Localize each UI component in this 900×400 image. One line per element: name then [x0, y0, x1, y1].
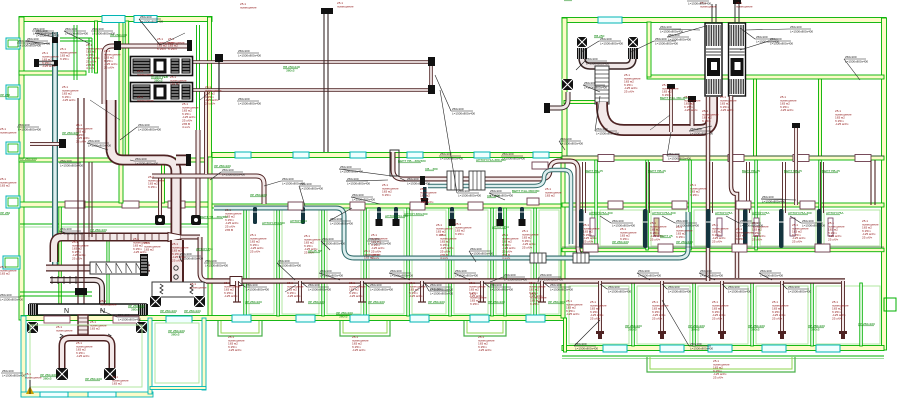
room box x781 [790, 218, 795, 236]
svg-text:АНТОН Р5А-300: АНТОН Р5А-300 [652, 211, 676, 215]
wall box 4 [468, 202, 483, 210]
damper y178 [420, 176, 425, 185]
U-duct top right [582, 50, 633, 66]
svg-text:ВЕНТ П1А-380/380: ВЕНТ П1А-380/380 [512, 189, 540, 193]
fan tower A [705, 23, 722, 96]
wall box 1 [288, 202, 303, 210]
svg-text:L=1500х800х400: L=1500х800х400 [676, 223, 699, 227]
svg-text:L=1500х800х400: L=1500х800х400 [452, 111, 475, 115]
svg-text:ВЕНТ ПВ-25: ВЕНТ ПВ-25 [784, 169, 802, 173]
middle room wall x535 [534, 208, 537, 316]
junction box y199 [527, 198, 539, 205]
fan assembly mid [152, 282, 204, 297]
room drop x819 [817, 209, 822, 248]
svg-text:АН-25 ЛР: АН-25 ЛР [308, 249, 322, 253]
window x166 y316 [166, 316, 192, 323]
riser mid top [324, 14, 328, 152]
svg-text:L=1500х800х400: L=1500х800х400 [586, 61, 609, 65]
svg-text:L=1500х800х400: L=1500х800х400 [728, 289, 751, 293]
svg-text:АНТОН Р5А: АНТОН Р5А [715, 211, 733, 215]
svg-text:L=1500х800х400: L=1500х800х400 [205, 263, 228, 267]
drop short tee x237 [233, 301, 241, 303]
T xbox R [136, 322, 147, 333]
drop short x542 [540, 281, 544, 302]
duct exit cap [544, 103, 550, 113]
duct L5 thin [181, 235, 200, 240]
ladder stem [595, 66, 609, 104]
right wall opening 2 [663, 155, 679, 162]
svg-text:L=1500х800х400: L=1500х800х400 [430, 287, 453, 291]
drop short x422 [420, 281, 424, 302]
spring 1 [160, 284, 163, 294]
duct L1 end cap [187, 40, 192, 51]
xbox U right [628, 37, 638, 47]
svg-text:L=1500х800х400: L=1500х800х400 [430, 291, 453, 295]
svg-text:L=1500х800х400: L=1500х800х400 [490, 287, 513, 291]
svg-text:L=1500х800х400: L=1500х800х400 [347, 181, 370, 185]
bottom-left window 1 [40, 392, 68, 397]
svg-text:ЛР 250х100: ЛР 250х100 [676, 240, 693, 244]
svg-text:ВЕНТ ПВ—380/380: ВЕНТ ПВ—380/380 [398, 159, 426, 163]
wall box 7 [732, 244, 747, 252]
cap x692 [688, 96, 696, 102]
svg-text:380х5: 380х5 [171, 333, 180, 337]
right wall notch [884, 298, 896, 311]
room feed x581 [583, 162, 586, 213]
svg-text:L=1500х800х400: L=1500х800х400 [788, 289, 811, 293]
green line y38 [60, 37, 92, 39]
bottom-left room2 bottom wall [150, 387, 206, 390]
fan xbox 2 [194, 296, 205, 307]
svg-text:АНТОН Р5А-300: АНТОН Р5А-300 [589, 211, 613, 215]
svg-text:L=1500х800х400: L=1500х800х400 [550, 287, 573, 291]
middle room wall x245 [244, 208, 247, 316]
svg-text:АНТОН Р5А: АНТОН Р5А [826, 211, 844, 215]
drop long tee x722 [718, 331, 726, 334]
right bottom window 5 [816, 345, 840, 352]
svg-text:L=1500х800х400: L=1500х800х400 [390, 273, 413, 277]
middle top window 1 [235, 152, 251, 158]
svg-text:L=1500х800х400: L=1500х800х400 [740, 223, 763, 227]
right room wall x596 [595, 160, 598, 250]
green line pair x89 [88, 38, 90, 73]
left bay 5 [3, 256, 20, 269]
window left top 1 [102, 16, 125, 23]
svg-text:L=1500х800х400: L=1500х800х400 [60, 231, 83, 235]
teal stub top left [38, 61, 54, 66]
duct L1 horizontal y46 [104, 46, 189, 104]
svg-text:380х5: 380х5 [691, 328, 700, 332]
drop long tee x600 [596, 331, 604, 334]
middle room wall x278 [277, 208, 280, 316]
svg-text:380х5: 380х5 [154, 79, 163, 83]
svg-text:ЛР 250х100: ЛР 250х100 [612, 240, 629, 244]
right block wall x810 [819, 79, 822, 157]
middle room wall x492 [491, 208, 494, 316]
svg-text:L=1500х800х400: L=1500х800х400 [502, 156, 525, 160]
middle bottom window 1 [232, 315, 251, 322]
svg-text:L=1500х800х400: L=1500х800х400 [92, 31, 115, 35]
room feed x645 [647, 162, 650, 213]
mid top duct box [390, 150, 399, 176]
svg-text:380х5: 380х5 [811, 328, 820, 332]
svg-text:L=1500х800х400: L=1500х800х400 [540, 277, 563, 281]
mid drop x500 [498, 207, 502, 224]
wall stub x565 [564, 318, 567, 352]
left block wall x127 [125, 21, 129, 158]
right wall opening 5 [855, 155, 871, 162]
mid drop x379 [377, 207, 381, 224]
right block wall y77 [647, 75, 884, 79]
svg-text:ВЕНТ 25: ВЕНТ 25 [660, 234, 673, 238]
damper circles L8 [174, 266, 178, 270]
drop short x300 [298, 281, 302, 302]
duct from tower B [731, 96, 737, 278]
middle room inner outlines [249, 210, 274, 314]
mid drop x452 [450, 207, 454, 224]
room feed x819 [821, 162, 824, 213]
middle top window 4 [407, 152, 423, 158]
room drop x645 [643, 209, 648, 248]
tower feeds [712, 4, 739, 22]
right block wall y158 [562, 156, 884, 160]
svg-text:АНТОН 254-300: АНТОН 254-300 [262, 221, 285, 225]
svg-text:L=1500х800х400: L=1500х800х400 [802, 223, 825, 227]
svg-text:ЛР 250х100: ЛР 250х100 [62, 131, 79, 135]
duct L5 down [200, 237, 208, 281]
svg-text:ЛР 250х100: ЛР 250х100 [184, 309, 201, 313]
main corridor duct [206, 278, 845, 284]
right block bottom wall [562, 346, 884, 351]
right wall opening 3 [728, 155, 744, 162]
svg-text:L=1500х800х400: L=1500х800х400 [690, 131, 713, 135]
left block wall x93 [95, 21, 98, 73]
duct wide lower x180 [170, 240, 184, 282]
middle bottom window 4 [410, 315, 429, 322]
duct L3 end cap [186, 154, 191, 166]
middle room wall x450 [449, 208, 452, 316]
duct L6 box [90, 262, 148, 274]
svg-text:ВЕНТ ПВ-25: ВЕНТ ПВ-25 [648, 169, 666, 173]
room drop x581 [579, 209, 584, 248]
svg-text:L=1500х800х400: L=1500х800х400 [560, 141, 583, 145]
U xbox L [56, 368, 68, 380]
svg-text:ЛР 250х100: ЛР 250х100 [548, 300, 565, 304]
balcony middle 3 [464, 321, 506, 336]
svg-text:ЛР 250х100: ЛР 250х100 [250, 193, 267, 197]
AHU unit B [131, 83, 193, 102]
middle band top wall [212, 153, 565, 158]
mid drop x303 [301, 207, 305, 224]
svg-text:L=1500х800х400: L=1500х800х400 [668, 156, 691, 160]
T stem [78, 315, 88, 339]
svg-text:ЛР 250х100: ЛР 250х100 [428, 300, 445, 304]
cap y144 [59, 139, 66, 148]
svg-text:ЛР 250х100: ЛР 250х100 [90, 228, 107, 232]
svg-text:L=1500х800х400: L=1500х800х400 [308, 287, 331, 291]
riser x90 [89, 162, 92, 237]
drop short tee x482 [478, 301, 486, 303]
left block wall y204 [19, 202, 212, 207]
svg-text:N: N [64, 308, 69, 315]
balcony middle 1 [218, 321, 262, 336]
silencer box 2 [469, 171, 485, 190]
green pair x197 [196, 25, 198, 130]
middle room wall x365 [364, 208, 367, 316]
left block wall x60 [59, 207, 62, 316]
svg-text:L=1500х800х400: L=1500х800х400 [18, 127, 41, 131]
svg-text:ЛР 250х100: ЛР 250х100 [308, 300, 325, 304]
right wall opening 4 [793, 155, 809, 162]
middle top window 5 [474, 152, 490, 158]
drop long x722 [720, 281, 724, 333]
wall box 11 [736, 201, 751, 209]
right block wall x755 [754, 79, 757, 157]
right lower room inner outlines [569, 286, 629, 344]
teal corridor top run [428, 170, 571, 244]
right lower wall x861 [860, 283, 863, 346]
wall opening A [65, 201, 85, 208]
right lower room wall x812 [811, 283, 814, 346]
window left top 2 [134, 16, 157, 23]
svg-text:380х5: 380х5 [751, 328, 760, 332]
svg-text:L=1500х800х400: L=1500х800х400 [330, 221, 353, 225]
wall box 12 [800, 201, 815, 209]
bottom-left room bottom wall [21, 392, 153, 397]
svg-text:L=1500х800х400: L=1500х800х400 [688, 1, 711, 5]
drop short x482 [480, 281, 484, 302]
duct L7 lower run [50, 280, 102, 304]
right block wall y250 [562, 248, 884, 252]
wall box 10 [672, 201, 687, 209]
dark line x219 [218, 57, 220, 100]
U spring R [108, 334, 111, 341]
cap x796 [792, 123, 800, 128]
bottom-left room right wall [148, 318, 152, 394]
long vertical duct x708 [706, 97, 711, 281]
svg-text:L=1500х800х400: L=1500х800х400 [340, 169, 363, 173]
wall box 3 [410, 202, 425, 210]
right lower room wall x752 [751, 283, 754, 346]
left bay 2 [6, 85, 20, 99]
svg-text:L=1500х800х400: L=1500х800х400 [655, 41, 678, 45]
loop cap bottom [428, 85, 435, 94]
svg-text:L=1500х800х400: L=1500х800х400 [322, 241, 345, 245]
duct stub y144 [30, 142, 62, 146]
svg-text:L=1500х800х400: L=1500х800х400 [238, 53, 261, 57]
drop short tee x542 [538, 301, 546, 303]
svg-text:L=1500х800х400: L=1500х800х400 [762, 199, 785, 203]
svg-text:ЛР 250: ЛР 250 [0, 211, 10, 215]
bottom-left room2 inner outline [155, 323, 199, 383]
svg-text:ЛР 250: ЛР 250 [0, 93, 10, 97]
drop long tee x782 [778, 331, 786, 334]
silencer box 4 [573, 253, 589, 263]
room box x708 [717, 218, 722, 236]
loop cap top [428, 57, 435, 66]
up stub x692 [690, 102, 695, 126]
room box x745 [754, 218, 759, 236]
duct exit left [548, 92, 568, 108]
bottom-left window 2 [88, 392, 116, 397]
svg-text:L=1500х800х400: L=1500х800х400 [596, 131, 619, 135]
hatch box x140 [140, 254, 148, 276]
duct L5 corridor wide [54, 237, 168, 262]
svg-text:L=1500х800х400: L=1500х800х400 [140, 19, 163, 23]
right bottom window 4 [762, 345, 786, 352]
T-duct end R [138, 304, 148, 315]
svg-text:L=1500х800х400: L=1500х800х400 [300, 186, 323, 190]
right small wall y102 [564, 101, 600, 104]
svg-text:L=1500х800х400: L=1500х800х400 [845, 59, 868, 63]
left block wall x108 [107, 240, 109, 316]
riser pair x78 [78, 98, 84, 305]
svg-text:L=1500х800х400: L=1500х800х400 [238, 101, 261, 105]
svg-text:L=1500х800х400: L=1500х800х400 [60, 163, 83, 167]
right top window [598, 17, 622, 23]
mid drop x255 [253, 207, 257, 224]
xbox U left [577, 37, 587, 47]
left block mid wall y160 [19, 158, 212, 162]
riser fitting 1 [52, 37, 58, 43]
drop bar x425 [423, 187, 427, 199]
riser pair x872 [871, 160, 875, 205]
bottom-left room inner outline [30, 325, 142, 387]
right room wall x647 [646, 160, 649, 250]
svg-text:L=1500х800х400: L=1500х800х400 [118, 317, 141, 321]
svg-text:380х5: 380х5 [286, 69, 295, 73]
fan tower B [729, 23, 746, 96]
svg-text:ЛР 250х100: ЛР 250х100 [85, 377, 102, 381]
middle bottom window 6 [526, 315, 545, 322]
T-duct reg L [44, 316, 70, 323]
right room inner outlines [569, 210, 592, 246]
right block right wall [882, 18, 887, 350]
svg-text:L=1500х800х400: L=1500х800х400 [27, 41, 50, 45]
hatch under U right [628, 48, 638, 59]
mid drop x522 [520, 207, 524, 224]
svg-text:L=1500х800х400: L=1500х800х400 [88, 143, 111, 147]
left block left wall [19, 17, 24, 320]
room feed x745 [747, 162, 750, 213]
duct L9 vertical x198 [196, 130, 201, 215]
extra leader lines [160, 33, 185, 45]
wall box 6 [658, 244, 673, 252]
svg-text:L=1500х800х400: L=1500х800х400 [0, 297, 23, 301]
left block top wall [19, 17, 212, 22]
svg-text:L=1500х800х400: L=1500х800х400 [504, 277, 527, 281]
svg-text:ЛР 250х100: ЛР 250х100 [20, 157, 37, 161]
middle bottom window 3 [350, 315, 369, 322]
duct right x796 [794, 128, 798, 205]
svg-text:ВЕНТ П1А-380-380: ВЕНТ П1А-380-380 [660, 96, 688, 100]
right block wall x649 [647, 22, 651, 77]
svg-text:АНТОН 380х300: АНТОН 380х300 [404, 212, 428, 216]
room box x581 [590, 218, 595, 236]
U spring L [60, 334, 63, 341]
svg-text:380х5: 380х5 [131, 308, 140, 312]
right block top wall [562, 18, 886, 23]
middle room wall x323 [322, 208, 325, 316]
drop short tee x300 [296, 301, 304, 303]
svg-text:СВ—380: СВ—380 [425, 167, 438, 171]
room box x645 [654, 218, 659, 236]
right block bottom wall inner [562, 355, 884, 357]
duct from tower A [602, 97, 712, 130]
svg-text:L=1500х800х400: L=1500х800х400 [756, 39, 779, 43]
right bottom window 3 [708, 345, 732, 352]
drop short x237 [235, 281, 239, 302]
room drop x781 [779, 209, 784, 248]
svg-text:L=1500х800х400: L=1500х800х400 [368, 241, 391, 245]
duct L3 wide L-run [111, 100, 176, 282]
room feed x781 [783, 162, 786, 213]
svg-text:L=1500х800х400: L=1500х800х400 [458, 193, 481, 197]
T-duct reg R [113, 316, 139, 323]
wall box 2 [350, 202, 365, 210]
svg-text:ВЕНТ ПВ-25: ВЕНТ ПВ-25 [742, 169, 760, 173]
svg-text:ВЕНТ ТП—380/380: ВЕНТ ТП—380/380 [200, 215, 228, 219]
drop long x600 [598, 281, 602, 333]
wall box 8 [815, 244, 830, 252]
room box x819 [828, 218, 833, 236]
AHU return loop [192, 62, 431, 90]
fan xbox 1 [150, 296, 161, 307]
teal corridor mid run [214, 208, 688, 258]
middle band wall y206 [212, 204, 565, 208]
wall box 9 [608, 201, 623, 209]
black line y247 [562, 246, 884, 248]
bottom-left room left wall [21, 316, 26, 397]
wall box 5 [583, 244, 598, 252]
teal stub cap [34, 59, 39, 67]
svg-text:ЛР 250х100: ЛР 250х100 [488, 300, 505, 304]
elbow box x196 [191, 215, 201, 225]
svg-text:АНТОН 254: АНТОН 254 [196, 247, 213, 251]
middle room wall x408 [407, 208, 410, 316]
teal riser left [52, 32, 58, 266]
svg-text:ВЕНТ ПВ-25: ВЕНТ ПВ-25 [585, 169, 603, 173]
svg-text:380х5: 380х5 [339, 315, 348, 319]
svg-text:L=1500х800х400: L=1500х800х400 [370, 287, 393, 291]
green pair x75 [73, 25, 75, 80]
svg-text:L=1500х800х400: L=1500х800х400 [440, 156, 463, 160]
room drop x708 [706, 209, 711, 248]
xbox left edge right block [562, 79, 573, 90]
duct L5 taper [168, 233, 181, 242]
middle bottom window 2 [296, 315, 315, 322]
middle/right boundary wall x563 [561, 157, 565, 318]
riser cap x78 [75, 288, 87, 295]
right room wall x820 [819, 160, 822, 250]
drop long x782 [780, 281, 784, 333]
drop long x843 [841, 281, 845, 333]
middle top window 3 [350, 152, 366, 158]
svg-text:L=1500х800х400: L=1500х800х400 [135, 161, 158, 165]
T-duct main [30, 304, 146, 315]
svg-text:L=1500х800х400: L=1500х800х400 [668, 37, 691, 41]
duct L5 ticks [67, 233, 69, 241]
drop long x662 [660, 281, 664, 333]
right room wall x690 [689, 160, 692, 250]
left block wall x121 [119, 21, 123, 203]
right block left wall [562, 18, 567, 157]
U duct bottom [62, 338, 112, 372]
svg-text:L=1500х800х400: L=1500х800х400 [668, 289, 691, 293]
left block wall x163 [162, 162, 165, 203]
U xbox R [104, 368, 116, 380]
svg-text:L=1500х800х400: L=1500х800х400 [180, 256, 203, 260]
